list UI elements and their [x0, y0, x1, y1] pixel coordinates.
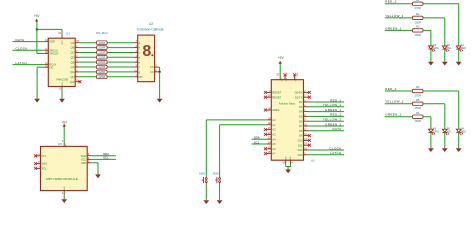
Arduino +5V pin stub — [277, 74, 281, 79]
wire R5 to LED D5 — [423, 104, 445, 129]
MPU VCC pin name — [64, 143, 66, 148]
net label DATA — [16, 38, 25, 42]
svg-text:GND: GND — [290, 156, 292, 161]
svg-text:A4: A4 — [272, 137, 276, 141]
MPU pin 6 XDA stub with no-connect — [34, 162, 47, 166]
U1 GND pin 8 stub — [59, 82, 64, 91]
svg-text:A0: A0 — [272, 118, 276, 122]
svg-text:R6: R6 — [416, 111, 420, 115]
wire U1 GND to ground — [61, 90, 63, 99]
resistor R12 (220R) — [97, 65, 108, 69]
Arduino +5V pin name — [280, 77, 282, 81]
Arduino pin 18 AREF stub — [264, 108, 280, 112]
svg-text:74HC595: 74HC595 — [56, 78, 69, 82]
svg-text:D11: D11 — [298, 143, 303, 147]
wire +5V to SRCLR pin — [37, 53, 44, 55]
U2 pin 5 segment DP stub — [134, 75, 143, 79]
wire U1 QE to R11 — [79, 61, 96, 63]
net label RED_1 (Arduino) — [330, 98, 341, 102]
svg-text:RED: RED — [461, 129, 467, 133]
D4 reference — [461, 126, 465, 130]
Arduino pin 25 A6 stub — [264, 147, 276, 151]
R2 reference — [416, 12, 420, 16]
svg-text:270R: 270R — [414, 93, 420, 97]
A1 reference designator — [311, 158, 315, 162]
wire U1 QC to R9 — [79, 51, 96, 53]
D4 value — [461, 129, 467, 133]
net label RED_2 (Arduino) — [330, 113, 341, 117]
wire net GREEN_2 — [385, 116, 413, 118]
wire U1 QB to R8 — [79, 47, 96, 49]
svg-text:+5V: +5V — [34, 14, 41, 18]
resistor R1 (270R) — [412, 2, 423, 5]
svg-text:R4: R4 — [416, 85, 420, 89]
power +5V (Arduino supply) — [278, 56, 285, 64]
Arduino pin 3 RESET stub — [264, 91, 282, 95]
wire R1 to LED D1 — [423, 4, 459, 46]
U2 pin 1 segment e stub — [134, 61, 141, 65]
svg-text:A1: A1 — [272, 123, 276, 127]
U3 reference designator — [58, 142, 62, 146]
wire SW1 to ground — [205, 185, 207, 200]
Arduino pin D9 stub — [299, 134, 311, 138]
wire R3 to LED D3 — [423, 30, 431, 46]
R1 value 270R — [414, 6, 420, 10]
MPU pin 3 SDA stub — [81, 154, 92, 158]
svg-text:XCL: XCL — [42, 167, 48, 171]
power +5V (U1 supply) — [34, 14, 41, 22]
svg-text:VCC: VCC — [64, 143, 66, 148]
net label GREEN_1 — [385, 26, 401, 30]
net label DATA (Arduino) — [333, 127, 342, 131]
svg-text:17: 17 — [286, 74, 289, 76]
wire R8 to display segment b — [107, 47, 134, 49]
svg-text:D4: D4 — [299, 110, 303, 114]
svg-text:CC: CC — [150, 70, 154, 74]
svg-text:8: 8 — [59, 89, 61, 91]
wire LED D6 to ground — [430, 132, 432, 148]
wire MPU AD0 to ground — [91, 163, 98, 175]
svg-text:LATCH: LATCH — [330, 151, 341, 155]
Arduino pin D4 stub — [299, 110, 308, 114]
wire LED D5 to ground — [444, 132, 446, 148]
U1 value 74HC595 — [56, 78, 69, 82]
svg-text:QC: QC — [70, 51, 74, 55]
svg-text:R7~R14: R7~R14 — [96, 31, 108, 35]
wire net YELLOW_1 (Arduino D3) — [309, 106, 345, 108]
svg-text:4: 4 — [291, 163, 293, 165]
svg-text:A7: A7 — [272, 152, 276, 156]
svg-text:4: 4 — [62, 193, 64, 195]
resistor R10 (220R) — [97, 55, 108, 59]
resistor R8 (220R) — [97, 46, 108, 50]
IC U1 74HC595 body — [48, 38, 75, 86]
svg-text:SW2: SW2 — [213, 171, 220, 175]
wire U1 QH to R14 — [79, 76, 96, 78]
svg-text:R5: R5 — [416, 98, 420, 102]
U1 VCC pin 16 stub — [58, 33, 62, 38]
MPU pin 8 INT stub with no-connect — [34, 154, 46, 158]
svg-text:QH': QH' — [70, 80, 75, 84]
Arduino pin D3 stub — [299, 105, 308, 109]
svg-text:SW1: SW1 — [199, 171, 206, 175]
svg-text:RESET: RESET — [272, 95, 281, 99]
R3 value 150R — [414, 33, 420, 37]
U1 pin 12 RCLK stub — [44, 63, 56, 67]
junction +5V branch — [36, 28, 38, 30]
resistor R9 (220R) — [97, 50, 108, 54]
resistor R2 (150R) — [412, 16, 423, 19]
R1 reference — [416, 0, 420, 2]
svg-text:D1/TX: D1/TX — [295, 95, 303, 99]
svg-text:D12: D12 — [298, 148, 303, 152]
svg-text:D5: D5 — [299, 115, 303, 119]
U2 pin 7 segment a stub — [134, 41, 141, 45]
Arduino VIN pin name — [294, 78, 296, 82]
Arduino pin D8 stub — [299, 129, 308, 133]
Arduino pin D12 stub — [298, 148, 309, 152]
svg-text:SRCLR: SRCLR — [49, 52, 58, 56]
svg-text:RED_2: RED_2 — [385, 87, 396, 91]
wire +5V to MPU VCC — [63, 127, 65, 143]
ground (MPU GND) — [61, 199, 67, 203]
U2 value Common Cathode — [137, 27, 164, 31]
U2 reference designator — [149, 22, 153, 26]
svg-text:+5V: +5V — [280, 77, 282, 81]
wire net DATA (Arduino D8) — [309, 130, 345, 132]
resistor R14 (220R) — [97, 75, 108, 79]
resistor R7 (220R) — [97, 41, 108, 45]
svg-text:R3: R3 — [416, 25, 420, 29]
wire +5V to Arduino — [279, 64, 281, 76]
net label YELLOW_1 — [385, 14, 404, 18]
wire net SCL (Arduino A5) — [252, 143, 267, 145]
svg-text:QE: QE — [71, 60, 75, 64]
Arduino pin 23 A4 stub — [266, 137, 276, 141]
resistor R6 (150R) — [412, 115, 423, 118]
svg-text:YELLOW_2: YELLOW_2 — [385, 100, 404, 104]
svg-text:YELLOW_1: YELLOW_1 — [385, 14, 404, 18]
net label SDA (MPU) — [103, 152, 109, 156]
Arduino GND pin stubs — [282, 156, 293, 165]
svg-text:CLOCK: CLOCK — [329, 146, 341, 150]
U1 pin 2 QC stub — [70, 51, 79, 55]
R2 value 150R — [414, 20, 420, 24]
LED D6 — [429, 129, 436, 135]
svg-text:YELLOW_1: YELLOW_1 — [323, 103, 342, 107]
U2 pin 8 CC stub — [150, 70, 159, 74]
svg-text:QF: QF — [71, 65, 75, 69]
wire LED D2 to ground — [444, 49, 446, 62]
ground (U1 OE) — [34, 99, 40, 103]
ground (LED D6) — [428, 148, 434, 152]
D2 value — [447, 46, 452, 50]
svg-text:GREEN_2: GREEN_2 — [325, 122, 341, 126]
ground (SW1) — [203, 200, 209, 204]
ground (Arduino) — [285, 170, 291, 174]
svg-text:GND: GND — [285, 156, 287, 161]
Arduino pin D10 stub — [298, 139, 311, 143]
svg-text:GREEN_1: GREEN_1 — [385, 26, 401, 30]
Arduino pin D0/RX stub — [295, 91, 311, 95]
Arduino pin 26 A7 stub — [264, 152, 276, 156]
MPU GND pin stub — [62, 186, 66, 195]
ground (LED D4) — [456, 148, 462, 152]
U1 pin 7 QH stub — [70, 75, 79, 79]
ground (LED D5) — [442, 148, 448, 152]
wire A1 to SW2 — [220, 125, 267, 176]
Arduino pin D6 stub — [299, 119, 308, 123]
wire SW2 to ground — [219, 185, 221, 200]
Arduino pin D1/TX stub — [295, 95, 311, 99]
U1 pin 15 QA stub — [71, 41, 80, 45]
wire net YELLOW_2 (Arduino D6) — [309, 120, 345, 122]
resistor R3 (150R) — [412, 29, 423, 32]
wire net SDA (MPU) — [91, 155, 116, 157]
svg-text:8: 8 — [142, 43, 151, 60]
ground (U1 GND) — [59, 99, 65, 103]
svg-text:SER: SER — [49, 40, 55, 44]
svg-text:150R: 150R — [414, 33, 420, 37]
wire Arduino GND join — [286, 164, 291, 169]
MPU VCC pin stub — [62, 141, 64, 146]
D2 reference — [447, 43, 451, 47]
R5 reference — [416, 98, 420, 102]
svg-text:LATCH: LATCH — [16, 61, 27, 65]
net label RED_1 — [385, 0, 396, 4]
wire R13 to display segment g — [107, 71, 134, 73]
svg-text:OE: OE — [49, 65, 53, 69]
svg-text:1: 1 — [62, 141, 64, 143]
svg-text:D0/RX: D0/RX — [295, 91, 303, 95]
svg-text:QB: QB — [71, 46, 75, 50]
wire +5V vertical to SRCLR — [36, 22, 38, 54]
wire net SDA (Arduino A4) — [252, 138, 267, 140]
svg-text:YEL: YEL — [447, 46, 452, 50]
ground (U2 CC) — [157, 99, 163, 103]
svg-text:SCL: SCL — [81, 158, 87, 162]
MPU pin 2 SCL stub — [81, 158, 91, 162]
U1 pin 13 OE stub — [44, 65, 53, 69]
resistor R11 (220R) — [97, 60, 108, 64]
svg-text:Arduino Nano: Arduino Nano — [279, 102, 296, 106]
U1 pin 6 QG stub — [70, 70, 79, 74]
svg-text:220R: 220R — [98, 55, 105, 59]
U1 pin 4 QE stub — [71, 60, 80, 64]
svg-text:270R: 270R — [414, 6, 420, 10]
Arduino pin 19 A0 stub — [266, 118, 276, 122]
wire R14 to display segment h — [107, 76, 134, 78]
R3 reference — [416, 25, 420, 29]
svg-text:15: 15 — [296, 74, 299, 76]
U1 pin 3 QD stub — [70, 55, 79, 59]
wire net LATCH — [13, 64, 45, 66]
wire LED D1 to ground — [458, 49, 460, 62]
D1 value — [461, 46, 467, 50]
svg-text:VIN: VIN — [294, 78, 296, 82]
svg-text:YELLOW_2: YELLOW_2 — [323, 118, 342, 122]
wire LED D3 to ground — [430, 49, 432, 62]
svg-text:U1: U1 — [66, 31, 70, 35]
svg-text:220R: 220R — [98, 70, 105, 74]
Arduino VIN pin stub with no-connect — [293, 73, 299, 79]
Arduino pin D13 stub — [298, 153, 309, 157]
svg-text:QA: QA — [71, 41, 75, 45]
U1 pin 10 SRCLR stub — [44, 52, 58, 56]
Arduino pin 28 RESET stub — [264, 95, 282, 99]
switch SW2 — [213, 171, 221, 185]
svg-text:QD: QD — [70, 55, 74, 59]
U2 pin 6 segment b stub — [134, 46, 141, 50]
net label SDA (Arduino) — [254, 136, 260, 140]
D6 value — [433, 129, 439, 133]
wire R7 to display segment a — [107, 42, 134, 44]
svg-text:DATA: DATA — [333, 127, 342, 131]
net label SCL (Arduino) — [254, 140, 260, 144]
resistor R13 (220R) — [97, 70, 108, 74]
svg-text:30: 30 — [277, 74, 280, 76]
LED D2 — [442, 46, 449, 52]
wire U1 QA to R7 — [79, 42, 96, 44]
net label GREEN_2 (Arduino) — [325, 122, 341, 126]
D6 reference — [433, 126, 437, 130]
svg-text:RED_2: RED_2 — [330, 113, 341, 117]
wire R6 to LED D6 — [423, 117, 431, 130]
svg-text:D13: D13 — [298, 153, 303, 157]
svg-text:150R: 150R — [414, 119, 420, 123]
svg-text:A3: A3 — [272, 133, 276, 137]
wire +5V to U1 VCC — [37, 29, 62, 34]
U1 pin 1 QB stub — [71, 46, 80, 50]
wire net YELLOW_2 — [385, 103, 413, 105]
svg-text:Common Cathode: Common Cathode — [137, 27, 164, 31]
U1 pin 14 SER stub — [44, 40, 55, 44]
svg-text:220R: 220R — [98, 65, 105, 69]
Arduino pin 21 A2 stub — [264, 128, 276, 132]
wire net RED_2 — [385, 90, 413, 92]
svg-text:220R: 220R — [98, 60, 105, 64]
svg-text:RED: RED — [461, 46, 467, 50]
svg-text:XDA: XDA — [42, 162, 48, 166]
svg-text:MPU-6050-MODULE: MPU-6050-MODULE — [46, 177, 78, 181]
Arduino 3V3 pin stub with no-connect — [284, 73, 290, 79]
wire net YELLOW_1 — [385, 17, 413, 19]
svg-text:GND: GND — [62, 82, 64, 87]
svg-text:GRN: GRN — [433, 46, 439, 50]
svg-text:R1: R1 — [416, 0, 420, 2]
wire A0 to SW1 — [206, 120, 266, 175]
D1 reference — [461, 43, 465, 47]
ground (MPU AD0) — [95, 174, 101, 178]
svg-text:A1: A1 — [311, 158, 315, 162]
net label RED_2 — [385, 87, 396, 91]
svg-text:220R: 220R — [98, 41, 105, 45]
svg-text:150R: 150R — [414, 20, 420, 24]
net label CLOCK (Arduino) — [329, 146, 341, 150]
LED D4 — [456, 129, 463, 135]
U1 pin 9 QH' stub with no-connect — [70, 80, 82, 84]
Arduino pin 20 A1 stub — [266, 123, 276, 127]
wire U1 QG to R13 — [79, 71, 96, 73]
svg-text:SCL: SCL — [254, 140, 260, 144]
R6 value 150R — [414, 119, 420, 123]
svg-text:CC: CC — [150, 65, 154, 69]
U1 pin 11 SRCLK stub — [44, 48, 58, 52]
resistor R5 (150R) — [412, 102, 423, 105]
svg-text:GREEN_2: GREEN_2 — [385, 113, 401, 117]
U2 pin 10 segment g stub — [134, 70, 141, 74]
Arduino pin D11 stub — [298, 143, 311, 147]
R4 value 270R — [414, 93, 420, 97]
Arduino pin D2 stub — [299, 100, 308, 104]
U1 VCC pin name — [62, 40, 64, 45]
U1 pin 5 QF stub — [71, 65, 80, 69]
Arduino pin D7 stub — [299, 124, 308, 128]
net label YELLOW_2 — [385, 100, 404, 104]
module A1 Arduino Nano body — [271, 80, 303, 161]
ground (LED D2) — [442, 62, 448, 66]
wire net RED_2 (Arduino D5) — [309, 115, 345, 117]
svg-text:GREEN_1: GREEN_1 — [325, 108, 341, 112]
svg-text:R2: R2 — [416, 12, 420, 16]
U3 value MPU-6050-MODULE — [46, 177, 78, 181]
svg-text:U2: U2 — [149, 22, 153, 26]
wire U2 CC to ground — [159, 72, 161, 99]
Arduino pin 24 A5 stub — [266, 142, 276, 146]
wire net RED_1 (Arduino D2) — [309, 101, 345, 103]
svg-text:D3: D3 — [299, 105, 303, 109]
svg-text:16: 16 — [58, 33, 61, 35]
svg-text:SDA: SDA — [81, 154, 87, 158]
svg-text:RED_1: RED_1 — [330, 98, 341, 102]
Arduino pin D5 stub — [299, 115, 308, 119]
svg-text:AD0: AD0 — [81, 161, 87, 165]
U2 digit 8 — [142, 43, 153, 60]
svg-text:AREF: AREF — [272, 108, 280, 112]
display U2 body — [138, 35, 155, 82]
wire MPU GND to ground — [63, 195, 65, 200]
U2 pin 2 segment d stub — [134, 55, 141, 59]
svg-text:GRN: GRN — [433, 129, 439, 133]
svg-text:D9: D9 — [299, 134, 303, 138]
svg-text:D2: D2 — [299, 100, 303, 104]
ground (LED D3) — [428, 62, 434, 66]
MPU pin 5 AD0 stub — [81, 161, 91, 165]
net label LATCH — [16, 61, 27, 65]
wire net CLOCK — [13, 49, 45, 51]
power +5V (MPU supply) — [61, 120, 68, 126]
wire net LATCH (Arduino D13) — [309, 154, 345, 156]
svg-text:QH: QH — [70, 75, 74, 79]
resistor array reference R7~R14 — [96, 31, 108, 35]
svg-text:SDA: SDA — [254, 136, 260, 140]
wire net CLOCK (Arduino D12) — [309, 149, 345, 151]
svg-text:A2: A2 — [272, 128, 276, 132]
svg-text:+5V: +5V — [61, 120, 68, 124]
svg-text:RESET: RESET — [272, 91, 281, 95]
MPU pin 7 XCL stub with no-connect — [34, 167, 47, 171]
A1 value Arduino Nano — [279, 102, 296, 106]
D3 value — [433, 46, 439, 50]
wire net GREEN_1 — [385, 29, 413, 31]
net label GREEN_1 (Arduino) — [325, 108, 341, 112]
resistor R4 (270R) — [412, 89, 423, 92]
wire OE to ground — [37, 67, 44, 99]
wire R11 to display segment e — [107, 61, 134, 63]
net label SCL (MPU) — [103, 156, 109, 160]
U2 pin 9 segment f stub — [134, 65, 140, 69]
net label GREEN_2 — [385, 113, 401, 117]
